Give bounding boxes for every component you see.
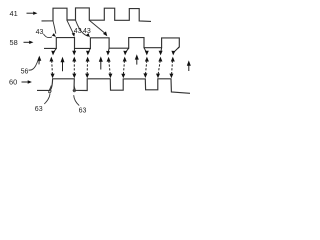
double dashed arrow to waveform 60 fall 1 xyxy=(72,57,76,79)
edge marker diagonal from waveform 41 rise 1 to waveform 58 rise 1 xyxy=(53,21,56,34)
arrowhead at waveform 58 rise 2 corner xyxy=(86,33,90,37)
double dashed arrow to waveform 60 rise 1 xyxy=(50,57,55,79)
leader from label 56 to first up arrow xyxy=(29,60,39,70)
label 60 xyxy=(9,78,17,87)
up arrow far right xyxy=(187,60,191,71)
down stub arrow at 58 rise 2 xyxy=(86,48,90,55)
double dashed arrow to waveform 60 fall 2 xyxy=(107,57,113,78)
svg-text:43: 43 xyxy=(36,29,44,36)
down stub arrow at 58 fall 1 xyxy=(72,48,76,55)
down stub arrow at 58 fall 4 xyxy=(171,47,179,56)
pigtail loop at waveform 60 fall 1 xyxy=(73,86,75,92)
label 41 xyxy=(10,9,18,18)
label 43 left xyxy=(36,29,44,36)
label 63 second xyxy=(79,108,87,115)
waveform 41 xyxy=(42,8,152,22)
svg-text:58: 58 xyxy=(10,38,18,47)
svg-text:60: 60 xyxy=(9,78,17,87)
waveform 58 xyxy=(44,38,179,49)
pigtail loop at waveform 60 rise 1 xyxy=(49,86,52,93)
double dashed arrow to waveform 60 fall 3 xyxy=(143,57,149,78)
double dashed arrow to waveform 60 fall 4 xyxy=(169,57,174,79)
double dashed arrow to waveform 60 rise 2 xyxy=(85,57,89,79)
up arrow 56 (first) xyxy=(37,56,41,65)
svg-text:63: 63 xyxy=(79,108,87,115)
double dashed arrow to waveform 60 rise 4 xyxy=(156,57,162,79)
leader from label 63 second to waveform 60 fall 1 foot xyxy=(74,95,80,105)
up arrow mid pulse 3 xyxy=(135,54,139,64)
down stub arrow at 58 fall 3 xyxy=(144,48,149,56)
arrow from label 41 xyxy=(27,12,38,15)
svg-text:41: 41 xyxy=(10,9,18,18)
edge marker diagonal from waveform 41 fall 1 to waveform 58 fall 1 xyxy=(67,20,75,37)
leader from label 43 left to waveform 58 rise 1 xyxy=(43,33,56,37)
up arrow mid pulse 1 xyxy=(61,57,65,71)
label 63 first xyxy=(35,106,43,113)
edge marker diagonal from waveform 41 rise 2 to waveform 58 rise 2 xyxy=(76,20,89,36)
arrow from label 60 xyxy=(22,80,32,83)
arrow from label 58 xyxy=(24,41,34,44)
labels 43 43 middle pair xyxy=(74,28,91,35)
leader from label 63 first to waveform 60 rise 1 foot xyxy=(44,93,50,104)
waveform 60 xyxy=(37,79,190,94)
svg-text:56: 56 xyxy=(21,68,29,75)
up arrow mid pulse 2 xyxy=(99,56,103,69)
double dashed arrow to waveform 60 rise 3 xyxy=(121,57,126,79)
svg-text:63: 63 xyxy=(35,106,43,113)
label 58 xyxy=(10,38,18,47)
edge marker diagonal from waveform 41 fall 2 to waveform 58 fall 2 xyxy=(89,20,107,36)
down stub arrow at 58 fall 2 xyxy=(106,48,110,55)
down stub arrow at 58 rise 4 xyxy=(159,48,163,56)
down stub arrow at 58 rise 3 xyxy=(123,48,128,55)
label 56 xyxy=(21,68,29,75)
down stub arrow at 58 rise 1 xyxy=(51,48,56,55)
